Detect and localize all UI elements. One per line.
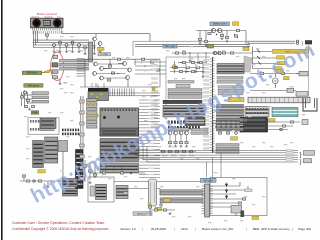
pullup ribbon bars — [32, 92, 49, 103]
svg-text:2110: 2110 — [181, 227, 188, 231]
loop wire bottom — [80, 59, 160, 87]
module box top edge — [133, 41, 248, 56]
bus end tiny labels — [286, 150, 293, 163]
res R2300 — [198, 38, 201, 44]
svg-text:Page 3(5): Page 3(5) — [298, 227, 311, 231]
mid2 vertical — [212, 121, 214, 153]
loop transistor g — [126, 76, 130, 80]
fan branch 2 — [253, 56, 285, 59]
br stub labels — [245, 189, 253, 192]
bandgap tr 2 — [218, 51, 221, 54]
connector barrel right — [53, 19, 62, 28]
loop transistor c — [93, 72, 97, 76]
spine vertical — [212, 57, 214, 153]
transistor row — [168, 128, 189, 135]
mem rows below — [100, 163, 139, 173]
svg-text:Board version: 2xx_56x: Board version: 2xx_56x — [202, 227, 234, 231]
bandgap junctions — [189, 52, 206, 53]
yellow dot right — [152, 88, 155, 91]
gnd below ellipse — [59, 79, 69, 85]
br ribbon B — [160, 198, 203, 203]
bandgap res 3 — [222, 52, 225, 54]
title section — [253, 227, 290, 231]
gray rows mid2 — [191, 129, 208, 135]
vertical gray bar — [88, 42, 93, 62]
loop to keypad verticals — [92, 83, 104, 88]
ribbon stack A — [217, 64, 244, 74]
pullup cluster wires — [22, 90, 33, 106]
emi filter Z2705 — [84, 46, 87, 55]
meter circle — [273, 74, 279, 88]
bml striped block A — [63, 179, 78, 188]
yellow label meter — [284, 77, 290, 80]
bus brace 1 — [300, 151, 315, 159]
connector pin labels — [31, 33, 62, 34]
sim box outline — [28, 118, 59, 134]
br ribbon A — [160, 190, 203, 195]
br right comps — [231, 206, 242, 217]
svg-text:Battery conn: Battery conn — [213, 23, 227, 26]
keypad pins right — [110, 89, 134, 96]
spine ticks right — [213, 58, 215, 152]
title version — [120, 227, 136, 231]
col rails — [81, 96, 83, 186]
svg-text:Pull up res: Pull up res — [28, 84, 40, 87]
bandgap row wire — [172, 52, 253, 54]
battery extra parts — [208, 31, 224, 40]
keypad yellow dots — [91, 93, 103, 99]
title code — [181, 227, 188, 231]
wire vflash — [250, 72, 299, 74]
svg-text:Bottom connector: Bottom connector — [37, 12, 57, 16]
spine pin dots — [212, 59, 213, 149]
UPP big IC — [100, 108, 139, 136]
yellow label vflash — [277, 70, 284, 73]
loop internal wires — [97, 63, 128, 78]
label TX GND — [98, 53, 111, 57]
yellow label BATT — [233, 22, 239, 26]
yellow label left — [38, 170, 46, 173]
red pin caption mid — [45, 16, 54, 19]
watermark .blogspot.com part — [164, 37, 320, 134]
emi filter Z2701 — [59, 41, 62, 52]
svg-text:Version: 1.0: Version: 1.0 — [120, 227, 136, 231]
bandgap res 2 — [182, 52, 185, 54]
connector pin smudge — [33, 31, 63, 34]
svg-text:EMI filters: EMI filters — [27, 72, 38, 75]
transistor V2300 — [211, 28, 215, 32]
svg-text:PWB: PWB — [32, 112, 38, 114]
title sep 3 — [195, 227, 196, 231]
diode V2302 — [234, 34, 238, 38]
wire top feed — [62, 31, 150, 42]
svg-text:Band gap: Band gap — [165, 45, 176, 48]
title sep 5 — [292, 227, 293, 231]
yellow label VBAT wide — [228, 97, 244, 101]
connector X2700 body — [31, 18, 64, 28]
filter row 3 — [170, 70, 205, 77]
emi filter Z2704 — [78, 44, 81, 53]
bml inner blocks — [90, 185, 107, 200]
battery contact strip — [248, 97, 310, 103]
dark bar mid — [163, 100, 202, 103]
left IC D2800 — [45, 137, 58, 163]
transistor V2700 cluster — [91, 34, 102, 55]
br spine — [202, 184, 213, 217]
gray label mid — [176, 84, 190, 87]
bus risers into box — [207, 153, 222, 178]
battery sym connector — [149, 179, 157, 206]
resistor array rows — [245, 107, 269, 117]
mid3 tiny labels — [162, 155, 195, 157]
battery holder symbol — [303, 98, 317, 111]
below-flash wire — [90, 172, 145, 174]
below-flash stubs — [98, 166, 122, 171]
fan riser — [252, 47, 254, 69]
res R2301 — [204, 40, 207, 46]
pin array mid — [168, 121, 200, 130]
left page border — [1, 0, 3, 240]
flash IC — [100, 139, 139, 162]
stack yellow dots — [88, 102, 99, 116]
keypad conn top bar — [88, 88, 109, 91]
label green BG — [207, 44, 214, 48]
emi filter Z2703 — [71, 41, 74, 52]
left bottom comps — [20, 175, 80, 188]
svg-text:Customer Care / Service Operat: Customer Care / Service Operations / Con… — [12, 221, 104, 225]
bus brace 2 — [300, 159, 312, 166]
gray trace wedge — [244, 56, 252, 72]
fan branch 3 — [253, 62, 287, 65]
connector center pins — [44, 20, 51, 26]
br zener column — [225, 183, 228, 200]
mb cluster wires — [83, 160, 96, 184]
bandgap res 4 — [230, 52, 233, 54]
bandgap drop 1 — [189, 53, 192, 62]
bus line 1 — [33, 39, 89, 41]
filter row 2 — [170, 66, 205, 68]
br box outline — [210, 178, 267, 216]
bml box outline — [88, 177, 114, 202]
left mid gray block — [59, 141, 68, 181]
ribbon stack C — [217, 105, 244, 131]
svg-text:}: } — [300, 160, 302, 166]
green label pullup — [24, 84, 43, 88]
transistor V2301 — [217, 28, 221, 32]
striped bars mid — [163, 105, 205, 117]
loop verticals — [96, 59, 128, 87]
dark tall block right — [76, 150, 84, 189]
label band gap — [163, 44, 177, 48]
br small dark — [241, 211, 245, 218]
bus line 2 — [33, 42, 89, 44]
title date — [151, 227, 166, 231]
right fan wires — [139, 100, 160, 178]
br yellow 2 — [155, 207, 162, 210]
bus with stubs — [212, 121, 240, 128]
loop res 2 — [117, 58, 144, 60]
spine side labels — [204, 60, 210, 150]
fan branch 4 — [253, 67, 282, 70]
bandgap res 1 — [175, 52, 178, 54]
red caption Bottom connector — [37, 12, 57, 16]
osc block — [185, 118, 205, 126]
small comp far right — [302, 120, 308, 125]
filter cluster mid-top — [178, 61, 207, 72]
title red line 2 — [12, 227, 109, 231]
yellow label charge — [98, 47, 105, 50]
left IC D2801 — [33, 141, 44, 168]
rail comps — [80, 100, 85, 180]
bus pair mid — [135, 45, 250, 47]
loop res 1 — [107, 65, 114, 81]
br yellow 1 — [164, 199, 171, 202]
connector barrel left — [32, 19, 41, 28]
mid2 small comps — [218, 132, 237, 135]
right module edge — [308, 45, 310, 96]
bus pair right — [248, 41, 295, 46]
comp box right — [296, 92, 308, 97]
loop wire top — [85, 59, 160, 87]
red pin caption right — [57, 17, 60, 19]
bus corner wires — [127, 146, 298, 162]
title board — [202, 227, 234, 231]
ribbon stack C2 — [217, 77, 243, 84]
svg-text:GND: GND — [63, 83, 68, 85]
label battery connector — [210, 22, 230, 26]
tiny designator marks — [24, 36, 305, 223]
pullup bottom comps — [24, 105, 34, 110]
bus line 4 — [33, 47, 89, 49]
ind L2400 circle — [172, 61, 176, 73]
green label EMI — [22, 71, 42, 75]
title sep 1 — [143, 227, 144, 231]
mid3 comps row — [160, 150, 196, 152]
br teal label — [201, 178, 217, 182]
br yellow 3 — [252, 216, 259, 219]
battery cluster wires — [196, 31, 246, 45]
emi filter Z2702 — [65, 44, 68, 53]
svg-text:SIM conn: SIM conn — [203, 179, 214, 182]
spine ticks left — [210, 59, 212, 150]
title page — [298, 227, 311, 231]
sim box pins — [30, 120, 54, 131]
yellow dot battery conn — [148, 203, 151, 206]
br wires — [210, 182, 248, 207]
yellow label mid2 — [231, 137, 238, 140]
cap C2303 — [236, 29, 239, 31]
title sep 2 — [174, 227, 175, 231]
wire mid right — [250, 88, 296, 92]
bml wire right — [114, 182, 204, 196]
end comp vflash — [296, 71, 308, 76]
red leader lines — [33, 17, 61, 20]
conn box stack — [87, 99, 98, 129]
bml right blocks — [116, 186, 128, 199]
yellow label row — [243, 47, 249, 50]
left block cluster top — [40, 118, 56, 129]
loop transistor e — [123, 62, 127, 66]
cap C2302 — [225, 36, 228, 42]
left tiny label column — [152, 60, 158, 128]
bandgap drop 2 — [197, 53, 200, 64]
connector bottom pin stubs — [33, 28, 62, 31]
fan branch 1 — [253, 49, 309, 53]
green label PWB — [31, 111, 38, 115]
ellipse comp 1 — [53, 55, 58, 58]
watermark http://mbkompi part — [27, 113, 178, 208]
svg-text:29.05.2006: 29.05.2006 — [151, 227, 166, 231]
bus end connector — [296, 40, 312, 45]
mid2 ribbon — [216, 144, 239, 154]
big dark IC N2200 — [240, 118, 268, 133]
loop-to-module wires — [135, 61, 166, 74]
ellipse comp 2 — [52, 63, 58, 67]
ribbon bars mid — [168, 81, 202, 99]
N2200 wires right — [268, 121, 300, 131]
label global connector — [133, 212, 152, 216]
left pin ladder — [77, 59, 85, 77]
red ellipse annotation — [51, 52, 64, 80]
bml striped block B — [63, 189, 78, 197]
bandgap drop 3 — [205, 53, 208, 62]
teal striped block — [272, 108, 298, 117]
emi filter Z2700 — [53, 44, 56, 53]
red pin caption left — [31, 16, 40, 19]
bus line 3 — [33, 44, 89, 46]
cap C2700 — [45, 34, 48, 40]
ellipse comp 4 — [53, 76, 58, 79]
module outline mid — [166, 57, 210, 110]
caps below row — [168, 135, 188, 147]
ellipse comp 3 — [52, 70, 58, 74]
svg-text:BER, UPP & Flash memory: BER, UPP & Flash memory — [253, 227, 290, 231]
pullup res boxes — [20, 91, 29, 101]
fan tiny labels — [148, 99, 154, 175]
annotation arrow — [42, 70, 51, 73]
ribbon right of ellipse — [60, 59, 89, 70]
bus riser — [33, 31, 37, 48]
loop transistor d — [100, 76, 104, 80]
ribbon stack B — [218, 86, 243, 95]
keypad conn body — [88, 92, 109, 101]
loop transistor f — [128, 68, 132, 72]
filter row junctions — [175, 62, 188, 72]
loop transistor b — [100, 67, 104, 71]
yellow label N2200 — [269, 119, 276, 122]
svg-text:Confidential Copyright © 2006: Confidential Copyright © 2006 NOKIA Only… — [12, 227, 109, 231]
title red line 1 — [12, 221, 104, 225]
br left cluster — [148, 204, 175, 215]
keypad out wires — [109, 93, 161, 96]
bandgap tr 1 — [213, 51, 216, 54]
loop transistor a — [94, 62, 98, 66]
left dark pin rows — [62, 129, 79, 136]
svg-text:TX GND: TX GND — [100, 54, 109, 56]
title sep 4 — [246, 227, 247, 231]
